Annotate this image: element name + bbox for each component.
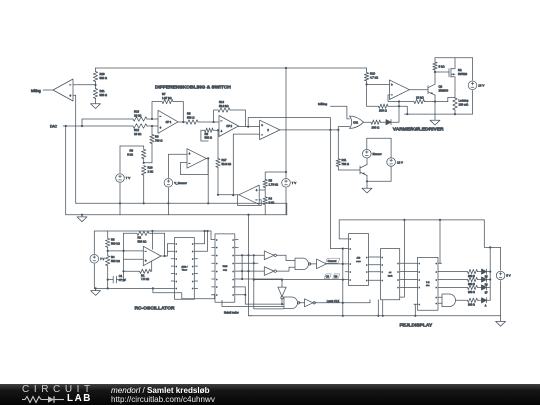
svg-text:−: − — [160, 114, 162, 118]
wire — [366, 176, 368, 186]
svg-text:o: o — [192, 266, 193, 268]
svg-text:o: o — [436, 263, 437, 265]
wire — [153, 288, 215, 298]
svg-text:R10: R10 — [370, 72, 376, 76]
svg-text:Nulstil tæller: Nulstil tæller — [224, 310, 239, 314]
mosfet M1 — [448, 69, 450, 77]
wire — [326, 263, 345, 265]
wire — [151, 118, 153, 120]
wire — [435, 71, 449, 73]
svg-text:o: o — [176, 259, 177, 261]
wire — [330, 106, 349, 119]
wire — [366, 83, 368, 85]
svg-text:200 Ω: 200 Ω — [468, 291, 475, 294]
wire — [441, 279, 467, 281]
svg-text:o: o — [436, 279, 437, 281]
svg-text:R4: R4 — [269, 197, 273, 201]
svg-text:o: o — [192, 251, 193, 253]
buffer 2 — [299, 302, 305, 304]
wire — [232, 134, 234, 195]
wire — [254, 279, 345, 281]
svg-text:R6: R6 — [155, 135, 159, 139]
svg-text:o: o — [350, 272, 351, 274]
IC U10 7-seg decoder — [418, 257, 439, 310]
resistor R13 — [133, 117, 147, 121]
op-amp U5 (input buffer, left-pointing) — [53, 79, 73, 101]
svg-text:2: 2 — [267, 129, 269, 132]
wire — [248, 118, 330, 131]
wire — [238, 294, 245, 296]
svg-text:50.0 kΩ: 50.0 kΩ — [219, 104, 229, 108]
svg-text:o: o — [216, 287, 217, 289]
wire — [409, 89, 428, 91]
svg-text:200 Ω: 200 Ω — [468, 275, 475, 278]
wire (ground rail) — [66, 214, 287, 216]
wire — [391, 102, 399, 123]
wire — [342, 303, 344, 316]
ground — [500, 316, 502, 319]
wire — [241, 255, 243, 279]
IC U9 counter latch — [381, 249, 400, 300]
svg-text:V_Sensor: V_Sensor — [174, 181, 187, 185]
svg-text:500 kΩ: 500 kΩ — [111, 241, 120, 245]
wire — [388, 95, 414, 102]
wire — [222, 300, 284, 306]
IC U8 A/D converter — [349, 234, 369, 286]
wire — [414, 304, 415, 316]
svg-text:500 Ω: 500 Ω — [100, 93, 107, 97]
svg-text:o: o — [350, 248, 351, 250]
svg-text:50.0 kΩ: 50.0 kΩ — [222, 162, 232, 166]
wire — [366, 158, 368, 164]
wire — [238, 278, 282, 280]
svg-text:+: + — [145, 259, 147, 263]
wire — [108, 250, 144, 252]
resistor R23 Ledning — [453, 98, 457, 110]
svg-text:100 mΩ: 100 mΩ — [459, 102, 469, 106]
ground — [430, 118, 440, 125]
svg-text:o: o — [176, 288, 177, 290]
nand gate 1 — [295, 258, 309, 270]
svg-text:1.07 kΩ: 1.07 kΩ — [162, 96, 172, 100]
svg-text:o: o — [233, 239, 234, 241]
svg-text:o: o — [398, 271, 399, 273]
resistor R27 200Ω — [468, 298, 478, 302]
wire — [124, 258, 144, 260]
wire — [487, 271, 491, 273]
svg-text:OP 2: OP 2 — [226, 125, 232, 128]
ground — [77, 215, 87, 222]
svg-text:B7: B7 — [485, 292, 489, 294]
wire — [454, 58, 456, 69]
svg-text:5 kΩ: 5 kΩ — [439, 65, 446, 69]
wire (top rail) — [96, 67, 367, 69]
diode D6 LED — [478, 279, 482, 281]
resistor R4 — [264, 190, 266, 197]
voltage source V4 7V — [285, 68, 287, 172]
svg-text:+: + — [261, 123, 263, 127]
svg-text:7 V: 7 V — [100, 257, 104, 261]
svg-text:o: o — [176, 266, 177, 268]
svg-text:47 µF: 47 µF — [119, 278, 126, 282]
wire — [161, 255, 167, 257]
svg-text:o: o — [382, 280, 383, 282]
resistor R26 200Ω — [468, 285, 478, 289]
svg-text:+: + — [189, 152, 191, 156]
svg-text:200 Ω: 200 Ω — [468, 283, 475, 286]
wire — [425, 101, 448, 103]
svg-text:o: o — [216, 247, 217, 249]
resistor R11 — [337, 130, 339, 159]
svg-text:500 Ω: 500 Ω — [100, 76, 107, 80]
wire — [281, 299, 283, 305]
wire — [259, 189, 265, 191]
svg-text:o: o — [176, 273, 177, 275]
wire — [381, 121, 387, 123]
svg-text:o: o — [216, 295, 217, 297]
svg-text:R12: R12 — [134, 128, 140, 132]
svg-text:R21: R21 — [100, 89, 106, 93]
wire — [440, 296, 443, 298]
wire (feedback) — [180, 158, 208, 174]
wire — [448, 97, 455, 101]
svg-text:cmp: cmp — [223, 269, 228, 271]
wire — [144, 162, 152, 164]
wire — [367, 137, 391, 139]
svg-text:o: o — [350, 279, 351, 281]
wire (bus 2) — [403, 262, 414, 264]
svg-text:−: − — [256, 198, 258, 202]
svg-text:7 V: 7 V — [292, 181, 296, 185]
svg-text:o: o — [382, 265, 383, 267]
resistor R9 — [120, 146, 144, 149]
resistor R24 200Ω — [468, 269, 478, 273]
svg-text:−: − — [145, 249, 147, 253]
op-amp U2 — [260, 120, 280, 139]
inverter 2 — [264, 267, 274, 276]
svg-text:Ledning: Ledning — [459, 99, 469, 103]
svg-text:o: o — [436, 287, 437, 289]
svg-text:DIFFERENSKOBLING & SWITCH: DIFFERENSKOBLING & SWITCH — [155, 85, 231, 91]
diode D7 LED — [478, 286, 482, 288]
svg-text:FEJLDISPLAY: FEJLDISPLAY — [400, 322, 433, 328]
svg-text:o: o — [398, 279, 399, 281]
svg-text:1 kΩ: 1 kΩ — [148, 169, 154, 173]
svg-text:IRF530: IRF530 — [458, 72, 467, 76]
svg-text:o: o — [382, 257, 383, 259]
op-amp OP4 — [389, 80, 409, 100]
voltage source V5 12V — [390, 138, 392, 157]
svg-text:Q2: Q2 — [439, 85, 443, 89]
svg-text:R14: R14 — [219, 100, 225, 104]
wire — [198, 231, 208, 251]
svg-text:+: + — [256, 188, 258, 192]
wire — [198, 231, 205, 244]
transistor Q2 — [427, 86, 429, 94]
wire — [238, 254, 264, 256]
wire — [338, 169, 360, 171]
svg-text:+: + — [221, 130, 223, 134]
resistor R16 — [142, 166, 146, 175]
svg-text:o: o — [366, 257, 367, 259]
voltage source V2 7V — [119, 146, 121, 173]
inverter 3 (down) — [281, 280, 283, 288]
resistor R21 — [93, 89, 97, 99]
wire — [178, 121, 186, 123]
svg-text:o: o — [398, 263, 399, 265]
svg-text:R7: R7 — [162, 92, 166, 96]
svg-text:7485: 7485 — [222, 266, 228, 268]
resistor R10 — [366, 68, 368, 73]
svg-text:7 V: 7 V — [126, 176, 130, 180]
svg-text:o: o — [419, 287, 420, 289]
resistor R1 — [124, 270, 140, 272]
svg-text:o: o — [398, 287, 399, 289]
wire — [239, 126, 260, 128]
svg-text:dec: dec — [426, 285, 430, 287]
svg-text:Blæser: Blæser — [373, 152, 382, 156]
wire — [210, 231, 213, 240]
svg-text:o: o — [233, 263, 234, 265]
svg-text:1.79 kΩ: 1.79 kΩ — [269, 182, 279, 186]
wire — [123, 233, 125, 279]
svg-text:R11: R11 — [342, 158, 347, 162]
svg-text:latch: latch — [388, 274, 393, 277]
wire — [151, 231, 153, 249]
svg-text:R8: R8 — [205, 132, 209, 136]
op-amp U6 (sensor follower) — [187, 149, 206, 169]
svg-text:o: o — [436, 303, 437, 305]
svg-text:200 Ω: 200 Ω — [372, 125, 381, 129]
op-amp U3 (comparator, left-pointing) — [239, 185, 259, 204]
svg-text:R16: R16 — [148, 166, 154, 170]
wire — [454, 77, 456, 98]
wire — [43, 89, 53, 91]
wire — [441, 271, 467, 273]
svg-text:o: o — [233, 279, 234, 281]
svg-text:o: o — [233, 271, 234, 273]
wire — [206, 157, 208, 159]
resistor R2 500k — [124, 232, 137, 234]
svg-text:5 V: 5 V — [506, 274, 510, 278]
svg-text:500 kΩ: 500 kΩ — [138, 240, 147, 244]
svg-text:o: o — [233, 247, 234, 249]
node CONVERT flag — [326, 258, 340, 263]
svg-text:10 kΩ: 10 kΩ — [416, 96, 424, 100]
svg-text:4.7 kΩ: 4.7 kΩ — [370, 75, 378, 79]
resistor R12 — [133, 124, 147, 128]
svg-text:10 kΩ: 10 kΩ — [134, 132, 141, 136]
voltage source V3 7V — [93, 231, 95, 254]
resistor R7 (feedback) — [152, 102, 162, 120]
wire — [342, 249, 344, 303]
svg-text:+: + — [160, 126, 162, 130]
resistor R3 — [186, 120, 198, 124]
diode D8 LED — [478, 299, 482, 301]
or-gate OR1 — [350, 116, 364, 128]
ground — [362, 186, 372, 193]
svg-text:−: − — [189, 162, 191, 166]
svg-text:R2: R2 — [138, 236, 142, 240]
svg-text:o: o — [176, 244, 177, 246]
wire — [487, 279, 491, 281]
svg-text:o: o — [436, 271, 437, 273]
wire (varme bottom rail) — [404, 113, 472, 115]
inverter 1 — [264, 251, 274, 260]
wire (feedback) — [238, 195, 262, 206]
capacitor C1 — [108, 279, 114, 281]
svg-text:2N3904: 2N3904 — [439, 88, 449, 92]
resistor R25 200Ω — [468, 277, 478, 281]
resistor R17 — [217, 130, 219, 158]
resistor R22 5k — [434, 58, 436, 62]
svg-text:o: o — [216, 279, 217, 281]
svg-text:10 V: 10 V — [478, 84, 484, 88]
svg-text:9 kΩ: 9 kΩ — [127, 152, 133, 156]
svg-text:o: o — [176, 251, 177, 253]
diode D5 LED — [478, 271, 482, 273]
svg-text:OP 1: OP 1 — [166, 121, 172, 124]
wire — [487, 299, 491, 301]
svg-text:o: o — [233, 255, 234, 257]
wire (osc top rail) — [94, 230, 211, 232]
wire — [439, 220, 441, 263]
svg-text:500 kΩ: 500 kΩ — [111, 259, 120, 263]
svg-text:+: + — [69, 94, 71, 98]
wire — [441, 286, 467, 288]
wire — [310, 263, 317, 265]
svg-text:700 Ω: 700 Ω — [342, 162, 349, 166]
wire — [218, 194, 239, 196]
svg-text:R9: R9 — [129, 149, 133, 153]
svg-text:Convert: Convert — [328, 260, 337, 263]
wire — [338, 126, 349, 128]
op-amp OP1 — [158, 110, 178, 133]
wire — [377, 300, 379, 316]
svg-text:4020 /: 4020 / — [181, 266, 187, 268]
svg-text:o: o — [419, 271, 420, 273]
op-amp OP2 — [219, 116, 239, 137]
svg-text:A/D: A/D — [357, 257, 361, 260]
wire (top rail varme) — [435, 57, 473, 59]
wire — [337, 127, 339, 130]
resistor R8 — [201, 130, 208, 141]
resistor R6 — [151, 125, 153, 127]
wire (bus) — [372, 256, 377, 258]
svg-text:Måling: Måling — [31, 89, 41, 93]
svg-text:7-S: 7-S — [426, 282, 430, 284]
wire — [238, 270, 264, 272]
svg-text:500 Ω: 500 Ω — [187, 115, 194, 119]
resistor R3b 500k — [107, 231, 109, 238]
wire — [73, 95, 76, 203]
buffer 1 — [317, 259, 327, 269]
voltage source V_Sensor — [168, 154, 187, 177]
wire — [238, 287, 284, 304]
wire — [364, 121, 372, 123]
svg-text:o: o — [176, 281, 177, 283]
svg-text:R3: R3 — [187, 112, 191, 116]
wire — [198, 121, 219, 123]
wire — [487, 286, 491, 288]
resistor R20 — [95, 68, 97, 72]
svg-text:o: o — [192, 259, 193, 261]
wire — [63, 125, 133, 127]
svg-text:o: o — [419, 304, 420, 306]
wire — [82, 119, 133, 126]
svg-text:o: o — [366, 272, 367, 274]
svg-text:RC-OSCILLATOR: RC-OSCILLATOR — [135, 306, 175, 312]
svg-text:+: + — [391, 83, 393, 87]
svg-text:200 Ω: 200 Ω — [379, 109, 388, 113]
wire (bias rail) — [76, 202, 287, 204]
svg-text:−: − — [261, 133, 263, 137]
op-amp U1 (osc comparator) — [143, 246, 161, 265]
svg-text:ctr: ctr — [389, 271, 392, 274]
wire — [73, 84, 96, 86]
voltage source V6 5V — [500, 247, 502, 270]
wire — [434, 72, 436, 84]
wire (led common) — [489, 247, 491, 300]
and gate — [442, 294, 456, 307]
svg-text:o: o — [192, 281, 193, 283]
svg-text:o: o — [192, 273, 193, 275]
resistor R18 — [366, 84, 368, 106]
wire — [314, 302, 370, 304]
svg-text:o: o — [350, 239, 351, 241]
svg-text:700 Ω: 700 Ω — [155, 138, 162, 142]
svg-text:Måling: Måling — [318, 102, 327, 106]
svg-text:o: o — [192, 288, 193, 290]
svg-text:R20: R20 — [100, 72, 106, 76]
resistor R14 (feedback 50k) — [214, 110, 218, 122]
transistor Q1 — [359, 166, 361, 174]
svg-text:R1: R1 — [141, 273, 145, 277]
ground — [91, 288, 101, 295]
svg-text:o: o — [216, 239, 217, 241]
svg-text:o: o — [216, 263, 217, 265]
resistor R4b 500k — [107, 251, 109, 256]
wire — [65, 126, 67, 215]
svg-text:−: − — [69, 83, 71, 87]
svg-text:o: o — [216, 255, 217, 257]
wire — [233, 133, 259, 135]
ground — [91, 102, 101, 109]
svg-text:o: o — [350, 264, 351, 266]
diode D1 — [386, 120, 391, 125]
svg-text:Timer: Timer — [182, 269, 188, 272]
voltage source V_Blaeser — [366, 138, 368, 149]
wire — [456, 299, 468, 301]
wire — [166, 244, 168, 256]
svg-text:o: o — [366, 265, 367, 267]
svg-text:A: A — [485, 304, 487, 307]
svg-text:o: o — [436, 297, 437, 299]
svg-text:conv: conv — [356, 261, 362, 263]
svg-text:R13: R13 — [134, 110, 140, 114]
svg-text:R5: R5 — [269, 179, 273, 183]
svg-text:−: − — [391, 93, 393, 97]
wire — [281, 255, 295, 260]
resistor R5 — [263, 180, 267, 188]
wire (osc gnd rail) — [94, 287, 171, 289]
resistor R15 — [414, 99, 425, 103]
IC U7 7485 — [215, 234, 235, 302]
wire (to display) — [330, 130, 345, 249]
wire — [434, 95, 436, 118]
svg-text:−: − — [221, 119, 223, 123]
svg-text:o: o — [233, 287, 234, 289]
